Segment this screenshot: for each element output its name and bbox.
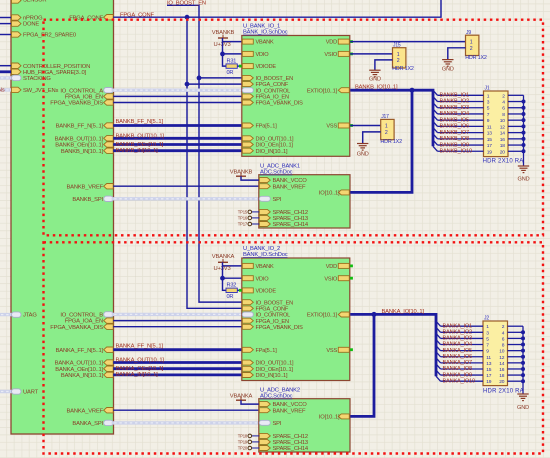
wire BANKB_IO10 to pin 19 xyxy=(438,150,484,152)
wire VSS bank1 to J17 pin1 xyxy=(350,125,380,127)
svg-text:GND: GND xyxy=(518,177,530,183)
junction FPGA_CONF top xyxy=(185,15,190,20)
bus entry BANKB_IO8 xyxy=(433,134,438,139)
junction at VDIO branch (bank2) xyxy=(220,276,225,281)
svg-text:BANKB_IO8: BANKB_IO8 xyxy=(440,136,470,142)
junction GND rail row 7 (J2) xyxy=(521,361,525,365)
sheet entry FPa[5..1] (bank2) xyxy=(242,347,253,352)
svg-text:BANKB_OEn[10..1]: BANKB_OEn[10..1] xyxy=(55,143,103,149)
sheet entry IO_BOOST_EN (bank2) xyxy=(242,300,253,305)
sheet entry FPa[5..1] (bank1) xyxy=(242,123,253,128)
svg-text:VDIO: VDIO xyxy=(256,52,270,58)
sheet entry VDIO (bank2) xyxy=(242,276,253,281)
sheet entry FPGA_CONF (bank2) xyxy=(242,306,253,311)
dimmed wire BANKB_SPI to ADC1 xyxy=(113,197,259,200)
svg-text:ADC.SchDoc: ADC.SchDoc xyxy=(260,394,293,400)
wire BANKB_IO1 to pin 1 xyxy=(438,94,484,96)
sheet entry BANKA_SPI xyxy=(104,420,114,425)
connection dot VSIO bank2 xyxy=(350,277,353,280)
bus entry BANKB_IO10 xyxy=(433,146,438,151)
connection dot VSS bank1 xyxy=(350,124,353,127)
wire pin 4 to GND rail xyxy=(508,331,524,333)
svg-text:nPROG: nPROG xyxy=(23,16,43,22)
svg-text:BANKA_FF_N[5..1]: BANKA_FF_N[5..1] xyxy=(56,348,104,354)
sheet entry VBANK (bank1) xyxy=(242,39,253,44)
svg-text:13: 13 xyxy=(486,361,492,367)
junction GND rail row 7 (J1) xyxy=(522,131,526,135)
svg-text:DONE: DONE xyxy=(23,22,39,28)
bus BANKB_IO[10..1] from EXTIO bank1 xyxy=(350,90,433,146)
wire pin 16 to GND rail xyxy=(508,138,524,140)
svg-text:2: 2 xyxy=(470,46,473,52)
sheet entry SPARE_CH14 (ADC1) xyxy=(259,222,270,227)
wire J17 pin2 to GND xyxy=(363,132,381,144)
svg-text:IO_CONTROL_B: IO_CONTROL_B xyxy=(60,313,103,319)
svg-text:HDR 2X10 RA: HDR 2X10 RA xyxy=(483,389,524,395)
bus BANKB_IN[10..1] xyxy=(113,149,242,152)
svg-text:FPGA_CONF: FPGA_CONF xyxy=(120,12,154,18)
test point TP18 xyxy=(252,435,260,437)
sheet entry FPGA_VBANKB_DIS xyxy=(104,100,114,105)
svg-text:FPGA_CONF: FPGA_CONF xyxy=(256,307,289,313)
svg-text:BANKA_SPI: BANKA_SPI xyxy=(72,421,103,427)
junction GND rail row 2 (J1) xyxy=(522,100,526,104)
sheet entry DIO_IN[10..1] (bank1) xyxy=(242,148,253,153)
junction GND rail row 3 (J2) xyxy=(521,336,525,340)
sheet entry FPGA_VBANK_DIS (bank2) xyxy=(242,324,253,329)
wire to DONE xyxy=(0,23,12,25)
svg-text:BANKB_IN[10..1]: BANKB_IN[10..1] xyxy=(116,148,159,154)
svg-text:17: 17 xyxy=(486,373,492,379)
junction FPGA_CONF at bank1 xyxy=(185,82,190,87)
connection dot VDIODE bank2 xyxy=(239,289,242,292)
svg-text:16: 16 xyxy=(500,137,506,143)
connector J1 (HDR 2X10 RA) xyxy=(484,91,509,157)
svg-text:TP19: TP19 xyxy=(238,439,248,444)
svg-text:BANKB_IO1: BANKB_IO1 xyxy=(440,93,470,99)
sheet entry DIO_OEn[10..1] (bank2) xyxy=(242,366,253,371)
wire pin 8 to GND rail xyxy=(508,344,524,346)
sheet entry SW_JVT_ENs xyxy=(12,87,22,92)
wire pin 6 to GND rail xyxy=(508,337,524,339)
sheet entry DIO_OUT[10..1] (bank1) xyxy=(242,136,253,141)
svg-text:DIO_IN[10..1]: DIO_IN[10..1] xyxy=(256,373,288,379)
svg-text:BANKB_VREF: BANKB_VREF xyxy=(66,184,103,190)
svg-text:BANKA_FF_N[5..1]: BANKA_FF_N[5..1] xyxy=(116,343,164,349)
sheet entry BANK_VREF (ADC2) xyxy=(259,408,270,413)
bus entry BANKB_IO7 xyxy=(433,128,438,133)
wire BANKA_IO9 to pin 17 xyxy=(441,374,484,376)
svg-text:HDR 2X10 RA: HDR 2X10 RA xyxy=(483,158,524,164)
svg-text:SPARE_CH14: SPARE_CH14 xyxy=(273,222,309,228)
bus BANKA_OEn[10..1] xyxy=(113,367,242,370)
svg-text:BANKB_OUT[10..1]: BANKB_OUT[10..1] xyxy=(116,133,165,139)
sheet entry STACKING xyxy=(12,75,22,80)
wire pin 4 to GND rail xyxy=(508,101,524,103)
svg-text:18: 18 xyxy=(499,373,505,379)
sheet entry FPGA_IOA_EN xyxy=(104,318,114,323)
svg-text:BANK_VCCO: BANK_VCCO xyxy=(273,178,308,184)
svg-text:0R: 0R xyxy=(227,294,234,300)
svg-text:IO_BOOST_EN: IO_BOOST_EN xyxy=(256,76,294,82)
svg-text:FPGA_CONF: FPGA_CONF xyxy=(256,82,289,88)
resistor R31 xyxy=(226,64,237,68)
wire VBANKA to VBANK (bank2) xyxy=(223,262,242,266)
junction GND rail row 10 (J1) xyxy=(522,149,526,153)
svg-text:FPGA_IO_EN: FPGA_IO_EN xyxy=(256,95,289,101)
bus entry BANKA_IO9 xyxy=(436,370,441,375)
selection box 2 (bottom, red dotted) xyxy=(44,242,544,453)
svg-text:BANKA_OUT[10..1]: BANKA_OUT[10..1] xyxy=(116,358,165,364)
bus branch to ADC1 IO xyxy=(350,90,412,192)
sheet entry FPGA_CONF (bank1) xyxy=(242,82,253,87)
sheet entry CONTROLLER_POSITION xyxy=(12,63,22,68)
sheet entry VSS (bank1) xyxy=(338,123,349,128)
svg-text:8: 8 xyxy=(502,343,505,349)
wire BANKA_IO3 to pin 5 xyxy=(441,337,484,339)
svg-text:FPGA_VBANKA_DIS: FPGA_VBANKA_DIS xyxy=(50,325,103,331)
sheet entry JTAG xyxy=(12,312,22,317)
svg-text:13: 13 xyxy=(487,131,493,137)
junction GND rail row 4 (J1) xyxy=(522,112,526,116)
svg-text:18: 18 xyxy=(500,143,506,149)
svg-text:BANKB_IO3: BANKB_IO3 xyxy=(440,105,470,111)
wire to CONTROLLER_POSITION xyxy=(0,65,12,67)
svg-text:BANK_VCCO: BANK_VCCO xyxy=(273,402,308,408)
svg-text:J9: J9 xyxy=(466,30,471,36)
sheet entry VSS (bank2) xyxy=(338,347,349,352)
svg-text:BANKA_IO2: BANKA_IO2 xyxy=(443,330,473,336)
test point TP20 xyxy=(252,447,260,449)
bus BANKA_FF_N[5..1] xyxy=(113,348,242,351)
svg-text:UART: UART xyxy=(23,390,39,396)
sheet entry SPARE_CH13 (ADC2) xyxy=(259,439,270,444)
sheet entry BANKA_IN[10..1] xyxy=(104,372,114,377)
sheet entry BANKB_FF_N[5..1] xyxy=(104,123,114,128)
bus entry BANKB_IO2 xyxy=(433,97,438,102)
wire pin 20 to GND rail xyxy=(508,380,524,382)
sheet symbol U_ADC_BANK1 xyxy=(259,175,350,228)
svg-text:FPGA_CONF: FPGA_CONF xyxy=(69,15,103,21)
sheet entry BANKB_OEn[10..1] xyxy=(104,142,114,147)
ground symbol (J9) xyxy=(442,59,453,61)
svg-text:14: 14 xyxy=(500,131,506,137)
wire FPGA_VBANKB_DIS to bank1 xyxy=(113,102,242,104)
svg-text:EXTIO[10..1]: EXTIO[10..1] xyxy=(307,313,338,319)
svg-text:FPGA_VBANK_DIS: FPGA_VBANK_DIS xyxy=(256,101,304,107)
svg-text:EXTIO[10..1]: EXTIO[10..1] xyxy=(307,88,338,94)
bus entry BANKA_IO8 xyxy=(436,364,441,369)
svg-text:BANKA_IN[10..1]: BANKA_IN[10..1] xyxy=(61,373,104,379)
sheet entry IO_BOOST_EN (bank1) xyxy=(242,75,253,80)
svg-text:U_ADC_BANK2: U_ADC_BANK2 xyxy=(260,388,300,394)
junction GND rail row 3 (J1) xyxy=(522,106,526,110)
connector J9 (HDR 1X2) xyxy=(466,35,479,55)
test point TP16 xyxy=(252,217,260,219)
bus branch to ADC2 IO xyxy=(350,314,374,416)
ground symbol (J17) xyxy=(357,143,368,145)
svg-text:IO_CONTROL: IO_CONTROL xyxy=(256,313,291,319)
svg-text:GND: GND xyxy=(357,151,369,157)
svg-text:12: 12 xyxy=(500,124,506,130)
svg-text:SPARE_CH13: SPARE_CH13 xyxy=(273,216,308,222)
junction GND rail row 5 (J1) xyxy=(522,118,526,122)
svg-text:U_BANK_IO_1: U_BANK_IO_1 xyxy=(243,23,280,29)
svg-text:TP18: TP18 xyxy=(238,433,248,438)
bus wire to HUB_FPGA_SPARE[3..0] xyxy=(0,70,12,73)
dimmed wire to JTAG xyxy=(0,313,12,316)
svg-text:BANKB_IO2: BANKB_IO2 xyxy=(440,99,470,105)
svg-text:8: 8 xyxy=(502,112,505,118)
connection dot VSS bank2 xyxy=(350,348,353,351)
wire pin 12 to GND rail xyxy=(508,356,524,358)
wire BANKA_IO8 to pin 15 xyxy=(441,368,484,370)
svg-text:15: 15 xyxy=(486,367,492,373)
ground symbol (J2) xyxy=(517,393,528,395)
connection dot VSIO bank1 xyxy=(350,53,353,56)
svg-text:VBANK: VBANK xyxy=(256,40,275,46)
wire FPGA_VBANKA_DIS to bank2 xyxy=(113,326,242,328)
wire pin 20 to GND rail xyxy=(508,150,524,152)
svg-text:JTAG: JTAG xyxy=(23,313,37,319)
svg-text:12: 12 xyxy=(499,355,505,361)
junction GND rail row 9 (J1) xyxy=(522,143,526,147)
svg-text:BANKB_IO4: BANKB_IO4 xyxy=(440,111,470,117)
wire FPGA_IOB_EN to bank1 xyxy=(113,95,242,97)
svg-text:4: 4 xyxy=(502,330,505,336)
svg-text:BANKA_IO4: BANKA_IO4 xyxy=(443,342,473,348)
svg-text:BANKB_IO9: BANKB_IO9 xyxy=(440,142,470,148)
svg-text:STACKING: STACKING xyxy=(23,76,51,82)
wire BANKB_IO2 to pin 3 xyxy=(438,101,484,103)
junction bus BANKB_IO xyxy=(410,88,415,93)
wire BANKA_VREF to ADC2 xyxy=(113,409,259,411)
wire VBANKB to VBANK xyxy=(223,38,242,42)
svg-text:14: 14 xyxy=(499,361,505,367)
connection dot VDIODE bank1 xyxy=(239,65,242,68)
svg-text:IO_BOOST_EN: IO_BOOST_EN xyxy=(167,0,206,6)
svg-text:6: 6 xyxy=(502,106,505,112)
sheet entry BANK_VREF (ADC1) xyxy=(259,184,270,189)
sheet entry EXTIO[10..1] (bank1) xyxy=(338,88,349,93)
svg-text:GND: GND xyxy=(517,405,529,411)
wire U+3V3 to VDIO xyxy=(223,42,242,54)
sheet entry BANKB_VREF xyxy=(104,184,114,189)
svg-text:J2: J2 xyxy=(484,316,489,322)
bus entry BANKA_IO2 xyxy=(436,327,441,332)
wire BANKB_IO9 to pin 17 xyxy=(438,144,484,146)
svg-text:IO[10..1]: IO[10..1] xyxy=(319,191,340,197)
svg-text:U_ADC_BANK1: U_ADC_BANK1 xyxy=(260,164,300,170)
wire to nPROG xyxy=(0,17,12,19)
sheet entry EXTIO[10..1] (bank2) xyxy=(338,312,349,317)
wire stub FPGA_CONF to bank1 xyxy=(187,83,242,85)
sheet entry VDIODE (bank1) xyxy=(242,64,253,69)
svg-text:FPGA_VBANKB_DIS: FPGA_VBANKB_DIS xyxy=(50,101,103,107)
svg-text:BANKA_IO5: BANKA_IO5 xyxy=(443,348,473,354)
svg-text:SPARE_CH14: SPARE_CH14 xyxy=(273,446,309,452)
bus entry BANKB_IO4 xyxy=(433,109,438,114)
svg-text:BANKB_IO[10..1]: BANKB_IO[10..1] xyxy=(355,85,398,91)
sheet entry SPI (ADC2) xyxy=(259,420,270,425)
sheet entry FPGA_IOB_EN xyxy=(104,94,114,99)
sheet entry IO[10..1] (ADC2) xyxy=(338,414,349,419)
svg-text:4: 4 xyxy=(502,100,505,106)
svg-text:BANKB_SPI: BANKB_SPI xyxy=(72,197,103,203)
bus entry BANKB_IO1 xyxy=(433,90,438,95)
svg-text:BANKA_OEn[10..1]: BANKA_OEn[10..1] xyxy=(116,366,164,372)
sheet entry BANKB_OUT[10..1] xyxy=(104,136,114,141)
sheet entry IO_CONTROL_B xyxy=(104,312,114,317)
wire VBANKB to BANK_VCCO (ADC1) xyxy=(241,176,259,180)
sheet entry VDIO (bank1) xyxy=(242,51,253,56)
wire to FPGA_FR2_SPARE0 xyxy=(0,34,12,36)
svg-text:SW_JVT_ENs: SW_JVT_ENs xyxy=(23,88,59,94)
sheet entry FPGA_VBANKA_DIS xyxy=(104,324,114,329)
svg-text:BANK_VREF: BANK_VREF xyxy=(273,184,306,190)
wire pin 10 to GND rail xyxy=(508,119,524,121)
sheet entry IO_CONTROL_A xyxy=(104,88,114,93)
svg-text:BANKB_IO7: BANKB_IO7 xyxy=(440,130,470,136)
wire pin 18 to GND rail xyxy=(508,374,524,376)
junction GND rail row 9 (J2) xyxy=(521,373,525,377)
sheet entry FPGA_FR2_SPARE0 xyxy=(12,32,22,37)
svg-text:FPGA_IOA_EN: FPGA_IOA_EN xyxy=(65,319,103,325)
svg-text:VBANK: VBANK xyxy=(256,264,275,270)
svg-text:VDIO: VDIO xyxy=(256,276,270,282)
wire pin 14 to GND rail xyxy=(508,132,524,134)
sheet entry VSIO (bank2) xyxy=(338,276,349,281)
svg-text:2: 2 xyxy=(385,130,388,136)
svg-text:20: 20 xyxy=(499,379,505,385)
svg-text:10: 10 xyxy=(500,118,506,124)
svg-text:BANKA_IO7: BANKA_IO7 xyxy=(443,360,473,366)
svg-text:BANKB_OEn[10..1]: BANKB_OEn[10..1] xyxy=(116,142,164,148)
junction IO_BOOST_EN xyxy=(197,76,202,81)
wire J15 pin2 to GND xyxy=(375,60,393,70)
bus entry BANKB_IO3 xyxy=(433,103,438,108)
svg-text:HDR 1X2: HDR 1X2 xyxy=(380,139,402,145)
svg-text:HUB_FPGA_SPARE[3..0]: HUB_FPGA_SPARE[3..0] xyxy=(23,70,87,76)
dimmed wire to SW_JVT_ENs xyxy=(0,88,12,91)
svg-text:FPa[5..1]: FPa[5..1] xyxy=(256,124,278,130)
junction GND rail row 8 (J1) xyxy=(522,137,526,141)
test point TP17 xyxy=(252,223,260,225)
sheet entry SPARE_CH12 (ADC2) xyxy=(259,433,270,438)
svg-text:DIO_IN[10..1]: DIO_IN[10..1] xyxy=(256,149,288,155)
svg-text:GND: GND xyxy=(442,66,454,72)
wire pin 8 to GND rail xyxy=(508,113,524,115)
bus entry BANKB_IO6 xyxy=(433,121,438,126)
svg-text:ADC.SchDoc: ADC.SchDoc xyxy=(260,170,293,176)
wire BANKA_IO6 to pin 11 xyxy=(441,356,484,358)
wire BANKA_IO7 to pin 13 xyxy=(441,362,484,364)
sheet entry IO_CONTROL (bank2) xyxy=(242,312,253,317)
wire BANKA_IO5 to pin 9 xyxy=(441,350,484,352)
svg-text:11: 11 xyxy=(486,355,491,361)
bus entry BANKB_IO9 xyxy=(433,140,438,145)
svg-text:10: 10 xyxy=(499,349,505,355)
connector J15 (HDR 1X2) xyxy=(393,48,406,68)
svg-text:HDR 1X2: HDR 1X2 xyxy=(392,66,414,72)
junction GND rail row 4 (J2) xyxy=(521,343,525,347)
wire BANKB_IO3 to pin 5 xyxy=(438,107,484,109)
svg-text:VDD: VDD xyxy=(326,40,337,46)
wire U+3V3 to VDIO (bank2) xyxy=(223,266,242,278)
wire net IO_BOOST_EN (top, runs down to both banks) xyxy=(167,5,242,302)
svg-text:DIO_OUT[10..1]: DIO_OUT[10..1] xyxy=(256,361,295,367)
bus BANKA_IN[10..1] xyxy=(113,373,242,376)
junction GND rail row 8 (J2) xyxy=(521,367,525,371)
svg-text:DIO_OEn[10..1]: DIO_OEn[10..1] xyxy=(256,367,294,373)
svg-text:DIO_OUT[10..1]: DIO_OUT[10..1] xyxy=(256,136,295,142)
svg-text:BANK_IO.SchDoc: BANK_IO.SchDoc xyxy=(243,30,288,36)
svg-text:VSIO: VSIO xyxy=(324,276,337,282)
wire BANKA_IO10 to pin 19 xyxy=(441,380,484,382)
sheet entry FPGA_CONF xyxy=(104,15,114,20)
wire through R31 to VDIODE xyxy=(223,54,242,66)
svg-text:R32: R32 xyxy=(227,283,237,289)
svg-text:0R: 0R xyxy=(227,70,234,76)
sheet entry BANKB_SPI xyxy=(104,196,114,201)
svg-text:CONTROLLER_POSITION: CONTROLLER_POSITION xyxy=(23,64,90,70)
test point TP19 xyxy=(252,441,260,443)
wire through R32 to VDIODE (bank2) xyxy=(223,278,242,290)
svg-text:11: 11 xyxy=(487,124,492,130)
sheet entry BANKA_OUT[10..1] xyxy=(104,360,114,365)
sheet entry BANKA_OEn[10..1] xyxy=(104,366,114,371)
bus entry BANKA_IO1 xyxy=(436,321,441,326)
svg-text:BANKB_FF_N[5..1]: BANKB_FF_N[5..1] xyxy=(56,124,104,130)
bus BANKB_FF_N[5..1] xyxy=(113,124,242,127)
bus entry BANKA_IO3 xyxy=(436,333,441,338)
wire BANKA_IO4 to pin 7 xyxy=(441,344,484,346)
ground symbol (J1) xyxy=(518,165,529,167)
svg-text:17: 17 xyxy=(487,143,493,149)
svg-text:2: 2 xyxy=(502,324,505,330)
svg-text:BANKA_OEn[10..1]: BANKA_OEn[10..1] xyxy=(55,367,103,373)
wire pin 2 to GND rail xyxy=(508,325,524,327)
bus entry BANKA_IO5 xyxy=(436,346,441,351)
svg-text:HDR 1X2: HDR 1X2 xyxy=(465,55,487,61)
test point TP15 xyxy=(252,211,260,213)
svg-text:BANKA_IN[10..1]: BANKA_IN[10..1] xyxy=(116,372,159,378)
junction at VDIO branch xyxy=(220,52,225,57)
svg-text:SENSOR: SENSOR xyxy=(23,0,46,4)
sheet entry DONE xyxy=(12,21,22,26)
svg-text:BANKA_IO1: BANKA_IO1 xyxy=(443,323,473,329)
svg-text:J17: J17 xyxy=(381,114,389,120)
svg-text:BANKB_OUT[10..1]: BANKB_OUT[10..1] xyxy=(55,136,104,142)
svg-text:VSIO: VSIO xyxy=(324,52,337,58)
sheet entry DIO_OUT[10..1] (bank2) xyxy=(242,360,253,365)
sheet entry BANKA_VREF xyxy=(104,408,114,413)
svg-text:FPGA_IOB_EN: FPGA_IOB_EN xyxy=(65,95,103,101)
wire J9 pin2 to GND xyxy=(448,48,466,60)
svg-text:15: 15 xyxy=(487,137,493,143)
bus entry BANKA_IO7 xyxy=(436,358,441,363)
wire BANKA_IO2 to pin 3 xyxy=(441,331,484,333)
sheet entry BANKA_FF_N[5..1] xyxy=(104,347,114,352)
bus entry BANKB_IO5 xyxy=(433,115,438,120)
wire stub IO_BOOST_EN to bank1 xyxy=(199,77,242,79)
svg-text:BANKA_IO8: BANKA_IO8 xyxy=(443,366,473,372)
svg-text:VDD: VDD xyxy=(326,264,337,270)
sheet entry IO_CONTROL (bank1) xyxy=(242,88,253,93)
svg-text:VDIODE: VDIODE xyxy=(256,64,277,70)
svg-text:VDIODE: VDIODE xyxy=(256,289,277,295)
svg-text:IO[10..1]: IO[10..1] xyxy=(319,415,340,421)
